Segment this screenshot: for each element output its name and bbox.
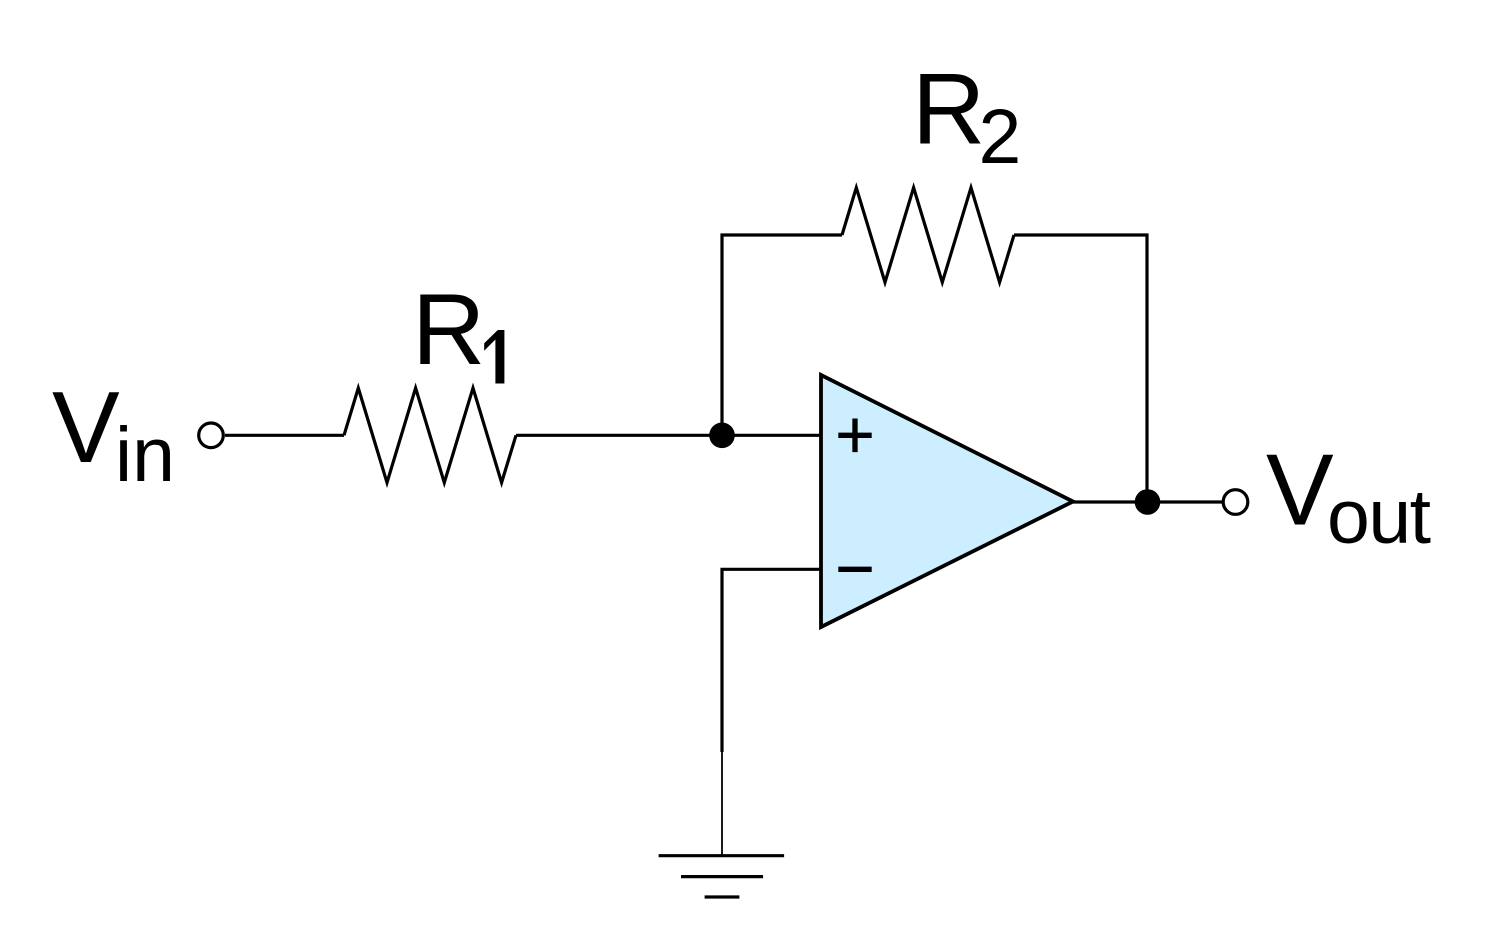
op-amp + input pin marker: [838, 419, 871, 453]
svg-text:R: R: [912, 52, 985, 166]
op-amp U1 body: [821, 375, 1073, 627]
svg-text:in: in: [115, 412, 175, 498]
node Vout label: [1266, 433, 1431, 561]
svg-text:R: R: [412, 272, 485, 386]
svg-text:out: out: [1327, 474, 1431, 560]
junction node A (+ input / feedback tap): [709, 423, 735, 449]
label R2: [912, 52, 1021, 181]
wire op-amp inverting input to ground stem: [722, 569, 821, 752]
label R1: [412, 272, 504, 386]
svg-text:2: 2: [979, 94, 1022, 180]
op-amp - input pin marker: [838, 567, 871, 572]
wire R1 to op-amp noninverting input: [516, 434, 821, 437]
wire op-amp output to Vout terminal: [1073, 500, 1223, 503]
svg-text:V: V: [52, 370, 120, 484]
output terminal Vout (open circle): [1223, 490, 1248, 515]
junction node output: [1135, 489, 1161, 515]
node Vin label: [52, 370, 175, 498]
ground: [659, 856, 785, 897]
wire R2 down to output node: [1014, 235, 1147, 502]
resistor R2: [842, 188, 1014, 283]
input terminal Vin (open circle): [199, 423, 224, 448]
wire node A up and over to R2: [722, 235, 842, 435]
svg-text:V: V: [1266, 433, 1334, 547]
wire Vin terminal to R1: [225, 434, 344, 437]
resistor R1: [344, 388, 516, 483]
ground lead (thin segment): [721, 750, 723, 856]
